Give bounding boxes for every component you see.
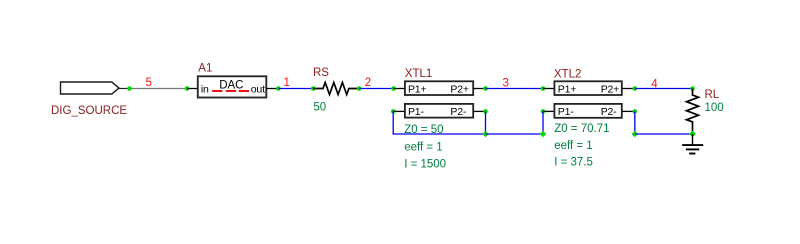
- wire net 4 (blue): [635, 88, 693, 90]
- svg-text:P2-: P2-: [601, 106, 617, 118]
- junction diamond on rail below XTL2 P2-: [632, 131, 638, 137]
- transmission line XTL2 bottom body: [554, 104, 621, 118]
- junction dot XTL2 P1+: [541, 86, 546, 91]
- svg-text:I = 1500: I = 1500: [404, 159, 446, 171]
- transmission line XTL1 bottom body: [405, 104, 473, 118]
- wire net 2 (blue): [359, 88, 393, 90]
- XTL2 P1+ pin stub: [543, 88, 554, 90]
- junction dot at DAC input: [185, 86, 190, 91]
- wire: XTL1 P1- drop to ground rail: [393, 111, 485, 134]
- DAC red dashed underline: [212, 90, 249, 92]
- svg-text:P2-: P2-: [450, 106, 466, 118]
- XTL2 P2- pin stub: [622, 110, 635, 112]
- resistor RL: [687, 89, 699, 135]
- wire: rail XTL1 to XTL2: [486, 133, 544, 135]
- svg-text:XTL2: XTL2: [554, 68, 582, 80]
- svg-text:A1: A1: [198, 63, 212, 75]
- junction diamond on rail below XTL2 P1-: [540, 131, 546, 137]
- svg-text:DAC: DAC: [219, 79, 243, 91]
- DAC pin stub out: [266, 88, 278, 90]
- svg-text:Z0 = 70.71: Z0 = 70.71: [554, 123, 609, 135]
- svg-text:4: 4: [651, 79, 658, 91]
- junction dot XTL1 P1+: [391, 86, 396, 91]
- resistor RS: [313, 83, 359, 95]
- svg-text:RL: RL: [705, 89, 720, 101]
- DAC pin stub in: [187, 88, 198, 90]
- wire: rail XTL2 to RL: [635, 133, 693, 135]
- svg-text:P1+: P1+: [408, 83, 426, 95]
- transmission line XTL2 top body: [554, 81, 621, 95]
- svg-text:P2+: P2+: [601, 83, 619, 95]
- svg-text:eeff = 1: eeff = 1: [554, 140, 592, 152]
- svg-text:eeff = 1: eeff = 1: [404, 142, 442, 154]
- svg-text:P2+: P2+: [450, 83, 468, 95]
- junction dot XTL1 P2-: [483, 109, 488, 114]
- XTL1 P1- pin stub: [393, 110, 405, 112]
- wire: digital net from node 5 to DAC pin (gray): [130, 88, 188, 90]
- junction dot XTL2 P1-: [541, 109, 546, 114]
- XTL2 P1- pin stub: [543, 110, 554, 112]
- svg-text:P1-: P1-: [558, 106, 574, 118]
- svg-text:XTL1: XTL1: [405, 68, 433, 80]
- svg-text:1: 1: [284, 77, 290, 89]
- svg-text:I = 37.5: I = 37.5: [554, 157, 593, 169]
- port DIG_SOURCE symbol: [61, 82, 119, 94]
- wire: XTL2 P2- drop to rail: [634, 111, 636, 134]
- junction dot at RS right: [357, 86, 362, 91]
- wire: XTL2 P1- drop to rail: [542, 111, 544, 134]
- svg-text:3: 3: [503, 78, 509, 90]
- junction dot XTL1 P2+: [483, 86, 488, 91]
- XTL1 P2+ pin stub: [473, 88, 485, 90]
- svg-text:100: 100: [705, 102, 724, 114]
- svg-text:P1-: P1-: [408, 106, 424, 118]
- junction dot at DIG_SOURCE output: [127, 86, 132, 91]
- XTL1 P1+ pin stub: [394, 88, 405, 90]
- XTL2 P2+ pin stub: [622, 88, 635, 90]
- junction dot RL top: [690, 86, 695, 91]
- wire: XTL1 P2- drop to rail: [485, 111, 487, 134]
- svg-text:DIG_SOURCE: DIG_SOURCE: [51, 105, 127, 117]
- transmission line XTL1 top body: [405, 81, 473, 95]
- junction dot at RS left: [311, 86, 316, 91]
- junction diamond RL bottom: [689, 131, 696, 138]
- svg-text:2: 2: [365, 77, 371, 89]
- junction diamond on rail below XTL1 P2-: [482, 131, 488, 137]
- svg-text:in: in: [201, 84, 209, 96]
- junction dot XTL1 P1-: [391, 109, 396, 114]
- ground stem: [692, 134, 694, 145]
- svg-text:RS: RS: [313, 67, 329, 79]
- svg-text:P1+: P1+: [558, 83, 576, 95]
- wire: DIG_SOURCE tip to node dot: [119, 88, 130, 90]
- wire net 3 (blue): [486, 88, 544, 90]
- junction dot at DAC output: [276, 86, 281, 91]
- op-amp A1 DAC block body: [198, 76, 266, 97]
- svg-text:5: 5: [146, 77, 152, 89]
- junction dot XTL2 P2-: [633, 109, 638, 114]
- XTL1 P2- pin stub: [473, 110, 485, 112]
- junction dot XTL2 P2+: [633, 86, 638, 91]
- svg-text:50: 50: [313, 101, 326, 113]
- wire net 1 (blue): [278, 88, 313, 90]
- svg-text:out: out: [251, 84, 265, 96]
- ground: [682, 145, 703, 153]
